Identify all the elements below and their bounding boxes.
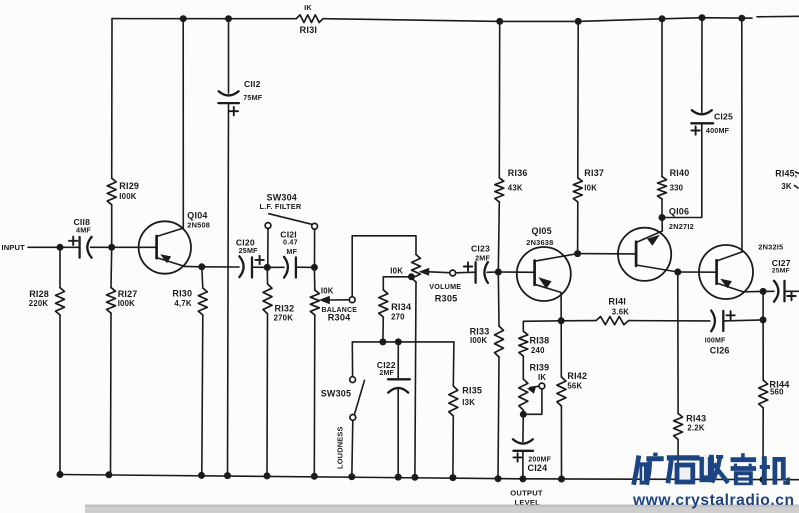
resistor R144 560 [759, 291, 791, 479]
wire: Q105 collector to Q106 base [578, 253, 637, 255]
wire: R305 bottom to ground [415, 282, 416, 478]
wire: C125 down and over to Q106 node [662, 123, 702, 217]
svg-text:RI34: RI34 [391, 302, 412, 312]
transistor Q106 2N2712 [618, 206, 694, 281]
svg-text:2MF: 2MF [379, 370, 394, 377]
wire: C112 down to ground rail [228, 103, 229, 477]
wire: R304 bottom to ground [313, 315, 316, 477]
wire: C120 to C121 [252, 266, 267, 268]
svg-text:I00MF: I00MF [705, 337, 726, 344]
wire: balance wiper up/over to R305 [352, 236, 416, 297]
capacitor C124 200MF [513, 414, 552, 473]
wire: Q104 emitter node [185, 265, 202, 267]
svg-text:43K: 43K [508, 184, 523, 193]
junction: C124 / ground rail [519, 475, 526, 482]
junction: R128 / ground rail [57, 471, 64, 478]
wire: Q104 collector up to rail [182, 19, 184, 228]
svg-text:2MF: 2MF [475, 253, 490, 262]
junction: Q105 collector / R137 [574, 250, 581, 257]
svg-text:CI24: CI24 [528, 463, 548, 473]
potentiometer R304 BALANCE 10K [310, 267, 357, 322]
svg-text:400MF: 400MF [706, 126, 730, 135]
svg-text:CI27: CI27 [772, 258, 791, 268]
svg-text:2N27I2: 2N27I2 [669, 222, 694, 231]
capacitor C123 2MF [456, 243, 499, 283]
resistor R141 3.6K [561, 296, 710, 324]
svg-text:CI22: CI22 [377, 360, 396, 370]
svg-text:I0K: I0K [390, 266, 403, 275]
svg-text:2N508: 2N508 [187, 221, 210, 230]
wire: C118 to base node [91, 246, 112, 248]
junction: R132 / ground rail [264, 472, 271, 479]
svg-text:CI25: CI25 [714, 111, 733, 121]
junction: emitter / C127 / R144 [760, 288, 767, 295]
junction: R304 / ground rail [311, 473, 318, 480]
svg-text:270K: 270K [274, 314, 294, 323]
svg-text:RI4I: RI4I [608, 296, 626, 306]
resistor R132 270K [263, 267, 294, 476]
resistor R130 4,7K [172, 267, 207, 476]
junction: SW305 / ground rail [348, 473, 355, 480]
junction: R140 / top rail [659, 15, 666, 22]
svg-text:QI06: QI06 [669, 206, 689, 216]
svg-text:R305: R305 [435, 294, 458, 304]
wire: to 2N3215 base [678, 271, 717, 273]
svg-text:25MF: 25MF [239, 246, 259, 255]
svg-text:MF: MF [286, 247, 297, 256]
junction: collector line / top rail [738, 15, 745, 22]
wire: 2N3215 collector up to rail [741, 18, 743, 252]
svg-text:I00K: I00K [118, 299, 135, 308]
watermark: www.crystalradio.cn [632, 492, 795, 509]
wiper of R139 [523, 383, 545, 414]
wire: base node to Q105 [498, 271, 534, 273]
svg-text:270: 270 [391, 312, 405, 321]
transistor 2N3215 [699, 243, 783, 299]
svg-text:IK: IK [538, 373, 546, 382]
svg-text:330: 330 [670, 183, 684, 192]
switch SW305 LOUDNESS [321, 342, 365, 478]
svg-text:I00K: I00K [119, 192, 136, 201]
junction: R127 / ground rail [105, 471, 112, 478]
junction: R140 / C125 / Q106 emitter [659, 214, 666, 221]
wire: tap to R134 [383, 277, 411, 290]
resistor R131 1K on top rail [296, 3, 323, 35]
svg-text:QI04: QI04 [187, 210, 207, 220]
junction: C112 / top rail [225, 15, 232, 22]
junction: C120/C121/R132/SW304 [264, 264, 271, 271]
svg-text:I3K: I3K [462, 398, 475, 407]
junction: emitter / R130 [198, 263, 205, 270]
resistor R145 3K (cut off at edge) [775, 169, 799, 191]
junction: input / R128 [57, 244, 64, 251]
wire: rail to R136 [498, 21, 500, 177]
switch SW304 L.F. FILTER [260, 193, 318, 265]
junction: R134 / loudness bus [379, 338, 386, 345]
watermark: Chinese logo [634, 453, 789, 485]
svg-text:2N3638: 2N3638 [526, 238, 553, 247]
svg-text:RI40: RI40 [670, 168, 690, 178]
wire: emitter to C120 [202, 266, 239, 268]
wire: rail to R137 [577, 21, 579, 177]
svg-text:IK: IK [304, 3, 312, 12]
svg-text:75MF: 75MF [243, 93, 263, 102]
svg-text:25MF: 25MF [772, 268, 790, 275]
resistor R140 330 [658, 168, 690, 218]
svg-text:RI29: RI29 [119, 181, 139, 191]
junction: C112 / ground rail [224, 472, 231, 479]
node INPUT [2, 243, 61, 252]
svg-text:RI45,: RI45, [775, 169, 797, 179]
wiper of R304 (arrow + terminal) [319, 296, 355, 304]
potentiometer R305 VOLUME 10K [390, 255, 461, 304]
svg-text:CII2: CII2 [244, 79, 261, 89]
svg-text:CI26: CI26 [710, 346, 730, 356]
svg-text:OUTPUT: OUTPUT [510, 488, 543, 497]
junction: R305 / ground rail [411, 474, 418, 481]
wire: Q105 emitter down [560, 292, 562, 320]
svg-text:R304: R304 [328, 313, 351, 323]
transistor Q105 2N3638 [517, 226, 578, 301]
resistor R137 10K [573, 168, 604, 254]
junction: C121/R304/SW304 [311, 264, 318, 271]
svg-text:RI30: RI30 [172, 289, 192, 299]
junction: R135 / ground rail [449, 474, 456, 481]
transistor Q104 2N508 [139, 210, 210, 273]
svg-text:INPUT: INPUT [2, 243, 26, 252]
svg-text:220K: 220K [29, 299, 49, 308]
svg-text:3K: 3K [781, 182, 792, 191]
svg-text:RI36: RI36 [508, 168, 528, 178]
svg-text:CI23: CI23 [471, 243, 490, 253]
capacitor C127 25MF [763, 258, 799, 302]
svg-text:www.crystalradio.cn: www.crystalradio.cn [632, 492, 795, 509]
resistor R127 100K [107, 247, 138, 475]
wire: loudness bus [352, 341, 454, 343]
svg-text:RI42: RI42 [567, 371, 587, 381]
svg-text:RI38: RI38 [530, 336, 550, 346]
resistor R136 43K [495, 168, 528, 272]
label: OUTPUT LEVEL [510, 488, 543, 507]
wire: C124 to ground rail [522, 451, 524, 479]
wire: base node to Q104 base [112, 246, 157, 248]
svg-text:I0K: I0K [584, 184, 597, 193]
svg-text:QI05: QI05 [532, 226, 552, 236]
svg-text:RI27: RI27 [118, 289, 138, 299]
svg-text:4MF: 4MF [76, 226, 91, 235]
svg-text:RI3I: RI3I [300, 25, 318, 35]
junction: C122 / loudness bus [395, 338, 402, 345]
svg-text:LOUDNESS: LOUDNESS [336, 426, 345, 469]
resistor R135 13K [449, 342, 482, 479]
bottom gray bar [85, 505, 799, 513]
junction: R144 / ground rail [760, 476, 767, 483]
svg-text:RI33: RI33 [470, 326, 490, 336]
resistor R129 100K [107, 178, 139, 247]
resistor R138 240 [519, 331, 550, 379]
wire: top rail down to R129 [111, 19, 113, 179]
junction: Q106 collector / 2N3215 base / R143 [674, 269, 681, 276]
capacitor C121 0.47MF [267, 230, 314, 278]
svg-text:I00K: I00K [470, 336, 487, 345]
resistor R134 270 [379, 290, 412, 342]
capacitor C122 2MF [377, 342, 410, 478]
svg-text:3.6K: 3.6K [612, 307, 629, 316]
svg-text:0.47: 0.47 [283, 237, 298, 246]
svg-text:RI43: RI43 [686, 414, 706, 424]
capacitor C120 25MF [236, 238, 264, 278]
svg-text:SW305: SW305 [321, 389, 352, 399]
svg-text:I0K: I0K [321, 287, 334, 296]
capacitor C112 75MF [218, 19, 262, 116]
junction: R137 / top rail [575, 18, 582, 25]
resistor R142 56K [557, 321, 587, 479]
junction: R143 / ground rail [675, 476, 682, 483]
wire: bottom ground rail [60, 475, 799, 480]
svg-text:RI37: RI37 [584, 168, 604, 178]
svg-text:2.2K: 2.2K [687, 424, 704, 433]
svg-text:RI28: RI28 [29, 289, 49, 299]
junction: R142 / ground rail [558, 476, 565, 483]
resistor R128 220K [29, 247, 65, 474]
svg-text:RI32: RI32 [275, 304, 295, 314]
wire: input to C118 [60, 246, 80, 248]
svg-text:VOLUME: VOLUME [429, 282, 461, 291]
junction: collector line / top rail [180, 15, 187, 22]
svg-text:240: 240 [531, 346, 545, 355]
svg-text:RI35: RI35 [462, 386, 482, 396]
capacitor C118 4MF [69, 217, 92, 258]
capacitor C125 400MF [691, 18, 733, 136]
wiper of R305 (arrow + terminal) [419, 268, 456, 276]
junction: R136 / top rail [496, 18, 503, 25]
resistor R133 100K [470, 272, 504, 479]
junction: R139 bottom / wiper / C124 [520, 411, 527, 418]
junction: R133 / ground rail [495, 475, 502, 482]
junction: C126 / emitter line [760, 316, 767, 323]
junction: Q105 emitter / R141 / R142 [558, 317, 565, 324]
svg-text:SW304: SW304 [267, 193, 298, 203]
svg-text:2N32I5: 2N32I5 [758, 243, 783, 252]
junction: R305 tap to R134 [408, 273, 415, 280]
svg-text:L.F. FILTER: L.F. FILTER [260, 202, 302, 211]
wire: rail to R140 [661, 19, 663, 177]
svg-text:RI39: RI39 [530, 363, 550, 373]
junction: Q105 base node (R136/R133/C123) [495, 269, 502, 276]
wire: top supply rail [112, 16, 799, 21]
potentiometer R139 1K (OUTPUT LEVEL) [519, 363, 550, 415]
resistor R143 2.2K [674, 272, 707, 479]
wire: 2N3215 emitter to C127 node [743, 290, 763, 292]
junction: C122 / ground rail [395, 474, 402, 481]
junction: R129/R127/base node [108, 244, 115, 251]
svg-text:4,7K: 4,7K [174, 299, 191, 308]
svg-text:56K: 56K [567, 382, 582, 391]
wire: emitter node left to R138 [523, 321, 561, 331]
svg-text:560: 560 [770, 388, 784, 397]
junction: C125 / top rail [699, 14, 706, 21]
junction: R130 / ground rail [198, 472, 205, 479]
capacitor C126 100MF [705, 311, 763, 356]
